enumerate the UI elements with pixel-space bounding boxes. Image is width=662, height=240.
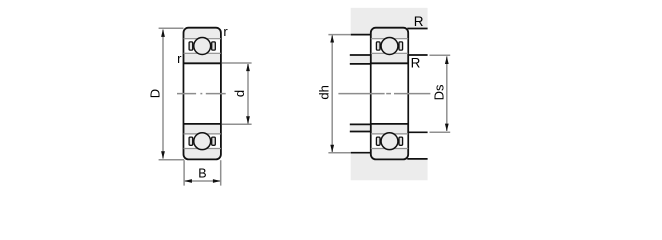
cage bracket top-left right view — [376, 42, 380, 50]
inner ring bore edge top left view — [184, 62, 221, 64]
arrow dh bottom — [330, 145, 334, 153]
bearing outline left view (rings cross-section) — [184, 28, 221, 160]
bore gap left view — [184, 64, 220, 123]
housing block top (hatch-free shaded) — [351, 8, 428, 35]
housing block bottom — [351, 153, 428, 180]
svg-text:R: R — [414, 14, 424, 29]
svg-text:Ds: Ds — [432, 84, 447, 100]
inner ring bore edge bottom left view — [184, 123, 221, 125]
extension line top (dh) — [328, 34, 350, 36]
housing shoulder bore line bottom-left — [351, 152, 372, 154]
svg-text:dh: dh — [317, 85, 332, 99]
arrow Ds bottom — [445, 124, 449, 132]
extension line top (D) — [159, 27, 184, 29]
svg-text:B: B — [198, 167, 206, 181]
extension line top (d) — [222, 62, 252, 64]
housing bore line bottom-right — [407, 158, 427, 160]
arrow D top — [161, 29, 165, 37]
arrow d bottom — [246, 116, 250, 124]
shaft shoulder line top-right — [407, 54, 427, 56]
ball bottom right view — [381, 133, 398, 150]
ball top left view — [194, 38, 211, 55]
centre axis left view (dash-dot) — [177, 93, 196, 95]
inner ring raceway line top left view — [184, 52, 221, 54]
arrow d top — [246, 64, 250, 72]
ball track band bottom right view — [372, 135, 408, 148]
arrow B left — [184, 179, 192, 183]
extension line right (B) — [220, 160, 222, 185]
housing shoulder bore line top-left — [351, 34, 372, 36]
dimension line D — [162, 30, 164, 159]
ball track band top right view — [372, 39, 408, 52]
inner ring bore edge bottom right view — [371, 123, 408, 125]
inner ring raceway line bottom left view — [184, 133, 221, 135]
svg-text:D: D — [148, 89, 163, 98]
ball bottom left view — [194, 133, 211, 150]
centre axis right view (dash-dot) — [338, 93, 384, 95]
dimension line d — [247, 64, 249, 124]
svg-text:r: r — [223, 24, 228, 39]
svg-text:d: d — [232, 90, 247, 97]
arrow D bottom — [161, 151, 165, 159]
cage bracket top-right right view — [399, 42, 403, 50]
cage bracket bottom-right left view — [212, 137, 216, 145]
inner ring raceway line bottom right view — [371, 133, 408, 135]
cage bracket bottom-left left view — [189, 137, 193, 145]
ball track band top left view — [184, 39, 220, 52]
arrow Ds top — [445, 56, 449, 64]
inner ring bore edge top right view — [371, 62, 408, 64]
outer ring raceway line top right view — [371, 38, 408, 40]
extension line top (Ds) — [430, 54, 451, 56]
shaft surface line top-left — [350, 63, 372, 65]
arrow B right — [213, 179, 221, 183]
ball track band bottom left view — [184, 135, 220, 148]
shaft shoulder strip top-left — [350, 55, 371, 64]
ball top right view — [381, 38, 398, 55]
extension line bottom (Ds) — [430, 131, 451, 133]
outer ring raceway line bottom right view — [371, 148, 408, 150]
extension line left (B) — [183, 160, 185, 185]
arrow dh top — [330, 35, 334, 43]
extension line bottom (D) — [159, 159, 185, 161]
bearing outline right view (rings cross-section) — [371, 28, 408, 160]
dimension line B — [185, 180, 221, 182]
cage bracket top-right left view — [212, 42, 216, 50]
cage bracket bottom-left right view — [376, 137, 380, 145]
shaft shoulder line bottom-right — [407, 131, 427, 133]
extension line bottom (dh) — [328, 152, 350, 154]
shaft shoulder strip bottom-left — [350, 124, 371, 131]
shaft surface line bottom-left — [350, 123, 372, 125]
svg-text:r: r — [177, 51, 182, 66]
extension line bottom (d) — [222, 123, 252, 125]
outer ring raceway line bottom left view — [184, 148, 221, 150]
shaft shoulder line bottom-left lower — [350, 131, 372, 133]
housing bore line top-right — [407, 28, 427, 30]
outer ring raceway line top left view — [184, 38, 221, 40]
inner ring raceway line top right view — [371, 52, 408, 54]
svg-text:R: R — [411, 55, 421, 70]
dimension line dh — [331, 36, 333, 153]
dimension line Ds — [446, 56, 448, 131]
bore gap right view — [372, 64, 408, 123]
cage bracket top-left left view — [189, 42, 193, 50]
cage bracket bottom-right right view — [399, 137, 403, 145]
shaft shoulder line top-left upper — [350, 54, 372, 56]
